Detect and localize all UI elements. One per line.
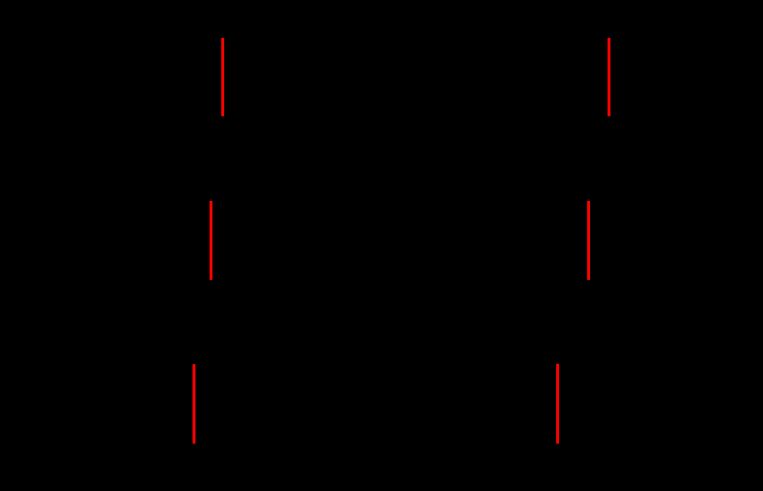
node C (bottom left junction) <box>192 441 196 445</box>
wire W4 (right branch, top segment, highlighted red) <box>608 38 611 116</box>
resistor R1 (left branch, upper) <box>211 116 223 201</box>
node A (top left junction) <box>221 36 225 40</box>
wire: top bus (net VTOP) <box>223 37 609 39</box>
wire W6 (right branch, bottom segment, highlighted red) <box>556 364 559 444</box>
wire W1 (left branch, top segment, highlighted red) <box>221 38 224 116</box>
resistor R2 (left branch, lower) <box>194 280 211 364</box>
node B (top right junction) <box>607 36 611 40</box>
resistor R3 (right branch, upper) <box>589 116 610 201</box>
wire: bottom bus (net GND) <box>194 443 558 445</box>
wire W3 (left branch, bottom segment, highlighted red) <box>193 364 196 444</box>
node D (bottom right junction) <box>555 441 559 445</box>
wire W5 (right branch, middle segment, highlighted red) <box>587 201 590 280</box>
wire W2 (left branch, middle segment, highlighted red) <box>210 201 213 280</box>
resistor R4 (right branch, lower) <box>558 280 589 364</box>
